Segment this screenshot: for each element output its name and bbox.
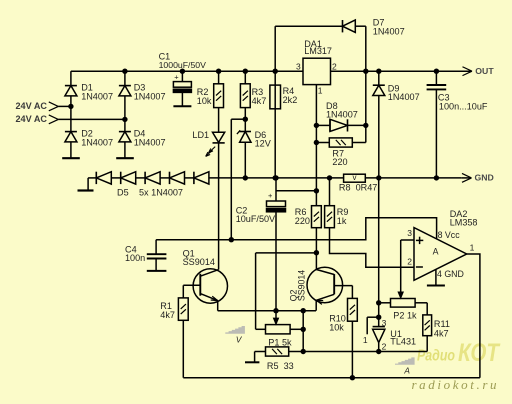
- transistor Q2: [307, 253, 352, 305]
- label D8: [326, 101, 358, 120]
- wire D8 left lead: [316, 124, 330, 126]
- svg-text:1N4007: 1N4007: [326, 109, 358, 119]
- svg-text:SS9014: SS9014: [183, 257, 215, 267]
- svg-text:1: 1: [470, 243, 475, 253]
- wire AC input lower: [58, 118, 125, 120]
- label R7: [332, 149, 347, 168]
- label R8: [339, 183, 377, 193]
- svg-text:R5 33: R5 33: [267, 361, 294, 371]
- wire chain-left end to ground: [88, 178, 96, 191]
- label R9: [337, 207, 349, 226]
- node R7 left: [314, 140, 319, 145]
- wire DA1 pin1 column: [315, 85, 317, 206]
- svg-text:+: +: [174, 73, 179, 82]
- svg-text:100n...10uF: 100n...10uF: [439, 101, 488, 111]
- capacitor C2 (electrolytic): [267, 178, 286, 311]
- svg-text:2: 2: [407, 257, 412, 267]
- watermark radiokot.ru: [412, 377, 498, 392]
- svg-text:24V AC: 24V AC: [15, 114, 47, 124]
- svg-text:1N4007: 1N4007: [81, 137, 113, 147]
- label C4: [125, 245, 145, 264]
- node TL431 ref hook: [376, 315, 381, 320]
- label R1: [160, 301, 175, 320]
- meter wedge A: [395, 357, 415, 375]
- svg-text:3: 3: [382, 318, 387, 328]
- connector 24V AC lower: [15, 114, 58, 124]
- label D9: [388, 83, 420, 102]
- wire vertical P1/R5 right column: [302, 311, 304, 352]
- pin 2 label DA1: [332, 61, 337, 71]
- svg-text:LM358: LM358: [450, 217, 478, 227]
- node R3-column on wire A: [229, 237, 234, 242]
- svg-text:OUT: OUT: [475, 66, 494, 76]
- node R2 top: [216, 69, 221, 74]
- svg-text:2: 2: [332, 61, 337, 71]
- node R10 bottom: [350, 375, 355, 380]
- wire vertical right bridge column: [124, 71, 126, 158]
- node C3 bottom on rail: [434, 175, 439, 180]
- svg-text:Радио: Радио: [417, 348, 455, 365]
- svg-text:4k7: 4k7: [252, 96, 267, 106]
- capacitor C1 (electrolytic): [173, 71, 191, 106]
- pin 8 label Vcc: [438, 230, 461, 240]
- resistor R9: [325, 178, 335, 228]
- wire P2 right to R11: [415, 303, 427, 315]
- transistor Q1: [183, 269, 227, 303]
- svg-text:2k2: 2k2: [283, 95, 298, 105]
- label U1: [390, 329, 416, 347]
- diode D7: [343, 20, 356, 32]
- node R5 right: [301, 349, 306, 354]
- node AC1-D1D2: [68, 104, 73, 109]
- resistor R2: [214, 84, 224, 108]
- node D8 right: [363, 123, 368, 128]
- wire R3 top lead: [244, 71, 246, 84]
- resistor R6: [312, 206, 322, 228]
- label D6: [255, 130, 272, 149]
- label C3: [438, 92, 488, 111]
- meter wedge V: [225, 326, 245, 344]
- wire R6 bottom to Q2 collector node: [315, 228, 317, 253]
- wire vertical left bridge column: [70, 71, 72, 158]
- diode chain D5 (5x 1N4007): [96, 172, 209, 184]
- ground bar under D2: [62, 157, 80, 159]
- node AC2-D3D4: [122, 117, 127, 122]
- node C2-branch on pin1 column: [314, 188, 319, 193]
- op-amp DA2 triangle: [414, 228, 467, 281]
- node P1 right: [301, 327, 306, 332]
- wire LD1 cathode down to Q1 collector: [218, 143, 220, 270]
- svg-text:P2 1k: P2 1k: [393, 310, 417, 320]
- opamp plus sign: [416, 237, 423, 244]
- svg-text:5x 1N4007: 5x 1N4007: [139, 187, 183, 197]
- resistor R3: [240, 84, 250, 108]
- svg-text:24V AC: 24V AC: [15, 101, 47, 111]
- wire opamp output: [467, 254, 480, 378]
- label Q1: [183, 249, 215, 267]
- node Q2 collector / R6 / P1 wire: [314, 250, 319, 255]
- svg-text:A: A: [433, 247, 439, 257]
- svg-text:100n: 100n: [125, 253, 145, 263]
- label D5: [117, 187, 183, 197]
- svg-text:radiokot.ru: radiokot.ru: [412, 377, 498, 392]
- wire R9 bottom to opamp pin2: [330, 228, 415, 268]
- label Q2: [289, 270, 307, 302]
- wire opamp pin4 to ground: [435, 269, 437, 285]
- label D1: [81, 82, 113, 101]
- label C2: [236, 205, 276, 224]
- label C1: [159, 52, 207, 70]
- svg-text:4k7: 4k7: [160, 310, 175, 320]
- op-amp DA1 LM317 box: [303, 58, 331, 84]
- wire TL431 column from GND rail: [378, 178, 380, 327]
- ground bar under C1: [173, 105, 191, 107]
- diode D3: [119, 86, 131, 96]
- wire D8 right lead: [348, 124, 366, 126]
- node C2 top on rail: [273, 175, 278, 180]
- node x303 on emitter rail: [301, 308, 306, 313]
- resistor R1: [178, 285, 188, 377]
- label R10: [329, 314, 346, 333]
- node P2 left: [376, 300, 381, 305]
- svg-text:1N4007: 1N4007: [134, 91, 166, 101]
- wire Q2 emitter down: [315, 300, 317, 310]
- wire R3 bottom lead: [244, 108, 246, 120]
- wire R11 bottom lead: [426, 336, 428, 352]
- wire D7/D8 right column: [365, 71, 367, 142]
- node D8 left: [314, 123, 319, 128]
- resistor R11: [423, 315, 432, 336]
- label P2: [393, 310, 417, 320]
- wire R2 top lead: [218, 71, 220, 84]
- svg-text:v: v: [353, 173, 357, 182]
- node R3 top: [243, 69, 248, 74]
- svg-text:220: 220: [332, 157, 347, 167]
- node D3 top rail: [122, 69, 127, 74]
- node D9 bottom on rail: [376, 175, 381, 180]
- label DA2: [450, 209, 478, 228]
- wire R3 node to vcc-wire column: [231, 119, 245, 240]
- svg-text:+: +: [268, 191, 273, 200]
- label D2: [81, 128, 113, 147]
- node P1 wiper on emitter rail: [273, 308, 278, 313]
- wire R7 left lead: [316, 142, 329, 144]
- wire R5 left to ground: [255, 352, 266, 363]
- pin 2 label U1: [382, 342, 387, 352]
- wire bottom rail: [183, 377, 480, 379]
- LED LD1 emission arrows: [206, 147, 216, 157]
- wire AC input upper: [58, 105, 71, 107]
- potentiometer P2 wiper arrow: [398, 292, 403, 299]
- wire top rail DA1 output to OUT: [331, 70, 472, 72]
- node TL431 anode: [376, 349, 381, 354]
- resistor R8 (shunt): [344, 173, 366, 182]
- label P1: [268, 338, 292, 348]
- pin 1 label DA1: [318, 86, 323, 96]
- pin 3 label DA2: [407, 228, 412, 238]
- diode D4: [119, 132, 131, 142]
- connector OUT: [462, 66, 494, 76]
- label R2: [197, 87, 212, 106]
- wire R7 right lead: [352, 142, 366, 144]
- diode D1: [65, 86, 77, 96]
- wire opamp pin3 input: [401, 239, 414, 241]
- potentiometer P1: [266, 325, 291, 334]
- wire anode rail R5-TL431-R11: [289, 351, 428, 353]
- ground bar R5: [245, 361, 259, 363]
- wire emitter rail Q1-Q2: [218, 310, 316, 312]
- svg-text:LM317: LM317: [304, 46, 332, 56]
- wire opamp pin3 to P2 wiper: [400, 240, 402, 292]
- svg-text:1N4007: 1N4007: [388, 92, 420, 102]
- svg-text:4 GND: 4 GND: [437, 269, 464, 279]
- pin 1 label DA2: [470, 243, 475, 253]
- label R3: [252, 87, 267, 106]
- wire A C4 to opamp Vcc: [156, 218, 437, 240]
- pin 3 label U1: [382, 318, 387, 328]
- pin 4 label GND: [437, 269, 464, 279]
- svg-text:1: 1: [363, 335, 368, 345]
- label R11: [434, 319, 450, 338]
- ground bar under D4: [116, 157, 134, 159]
- svg-text:1: 1: [318, 86, 323, 96]
- resistor R5: [266, 347, 289, 356]
- node D7 right on rail: [363, 69, 368, 74]
- LED LD1: [213, 132, 225, 143]
- svg-text:1000uF/50V: 1000uF/50V: [159, 60, 207, 70]
- svg-text:3: 3: [407, 228, 412, 238]
- svg-text:TL431: TL431: [390, 337, 416, 347]
- svg-text:220: 220: [295, 216, 310, 226]
- label R5: [267, 361, 294, 371]
- wire Q1 emitter down: [217, 301, 219, 311]
- svg-text:2: 2: [382, 342, 387, 352]
- svg-text:SS9014: SS9014: [297, 270, 307, 301]
- wire ground rail (chain to R8): [209, 177, 344, 179]
- node C1 top: [180, 69, 185, 74]
- node R4 bottom on rail: [273, 175, 278, 180]
- connector 24V AC upper: [15, 101, 58, 111]
- potentiometer P2: [391, 299, 416, 308]
- zener diode D6: [237, 119, 251, 178]
- svg-text:10k: 10k: [329, 322, 344, 332]
- pin 3 label DA1: [296, 61, 301, 71]
- label D4: [134, 128, 166, 147]
- svg-text:GND: GND: [475, 173, 494, 183]
- svg-text:A: A: [403, 365, 410, 375]
- svg-text:1N4007: 1N4007: [134, 137, 166, 147]
- label D3: [134, 82, 166, 101]
- wire D7 left branch: [275, 26, 342, 71]
- pin 1 label U1: [363, 335, 368, 345]
- ground bar under C4: [147, 270, 167, 272]
- wire P1 left lead: [256, 328, 266, 330]
- connector GND: [461, 173, 494, 183]
- svg-text:10uF/50V: 10uF/50V: [236, 214, 276, 224]
- wire D7 right branch: [355, 26, 366, 71]
- wire B P1-left to node: [256, 253, 317, 329]
- label R6: [295, 207, 310, 226]
- node R9 top on rail: [327, 175, 332, 180]
- opamp section letter A: [433, 247, 439, 257]
- resistor R4: [270, 71, 281, 178]
- diode D2: [65, 132, 77, 142]
- svg-text:10k: 10k: [197, 96, 212, 106]
- svg-text:R8 0R47: R8 0R47: [339, 183, 377, 193]
- svg-text:1k: 1k: [337, 216, 347, 226]
- node D6 bottom on rail: [243, 175, 248, 180]
- diode D9: [373, 71, 385, 178]
- watermark Radio KOT: [417, 339, 501, 367]
- pin 2 label DA2: [407, 257, 412, 267]
- svg-text:1N4007: 1N4007: [81, 91, 113, 101]
- wire R2 to LD1: [218, 108, 220, 133]
- svg-text:LD1: LD1: [192, 130, 209, 140]
- potentiometer P1 wiper arrow: [273, 311, 278, 325]
- label R4: [283, 86, 298, 105]
- label DA1: [304, 39, 332, 56]
- wire C2 branch: [276, 190, 316, 192]
- resistor R7: [329, 138, 352, 147]
- capacitor C4: [147, 240, 167, 271]
- resistor R10: [348, 286, 358, 378]
- node R3-D6: [243, 117, 248, 122]
- svg-text:12V: 12V: [255, 139, 272, 149]
- node D9 top: [376, 69, 381, 74]
- label D7: [373, 17, 405, 36]
- diode D8: [330, 119, 348, 131]
- svg-text:8 Vcc: 8 Vcc: [438, 230, 461, 240]
- wire P1 right lead: [290, 328, 303, 330]
- ground bar chain left: [78, 189, 94, 191]
- svg-text:1N4007: 1N4007: [373, 26, 405, 36]
- wire top positive rail (left of DA1): [71, 70, 303, 72]
- wire P2 left lead: [379, 302, 391, 304]
- node D7 left on rail: [273, 69, 278, 74]
- wire ground rail (R8 to GND): [365, 177, 461, 179]
- ground bar opamp: [427, 285, 445, 287]
- svg-text:D5: D5: [117, 187, 129, 197]
- label LD1: [192, 130, 209, 140]
- opamp minus sign: [416, 266, 423, 268]
- node C3 top: [434, 69, 439, 74]
- shunt regulator U1 TL431: [367, 317, 385, 351]
- capacitor C3: [427, 71, 447, 178]
- svg-text:3: 3: [296, 61, 301, 71]
- svg-text:4k7: 4k7: [434, 328, 449, 338]
